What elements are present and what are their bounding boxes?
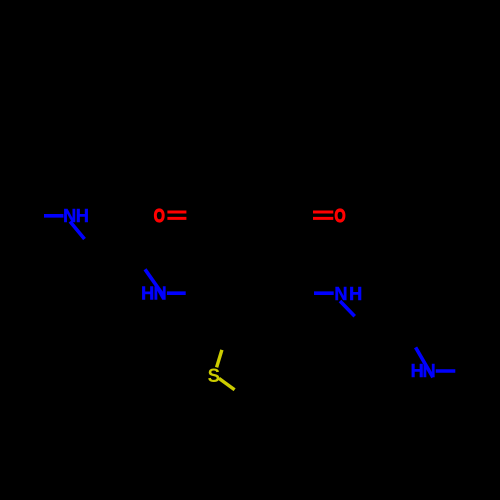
svg-text:H: H xyxy=(76,206,89,226)
svg-text:O: O xyxy=(154,205,165,226)
svg-text:N: N xyxy=(154,284,167,304)
svg-text:N: N xyxy=(63,206,76,226)
svg-text:H: H xyxy=(141,284,154,304)
svg-text:N: N xyxy=(334,284,347,304)
svg-text:O: O xyxy=(334,205,345,226)
svg-text:S: S xyxy=(208,365,220,387)
svg-text:N: N xyxy=(423,361,436,381)
svg-text:H: H xyxy=(349,284,362,304)
